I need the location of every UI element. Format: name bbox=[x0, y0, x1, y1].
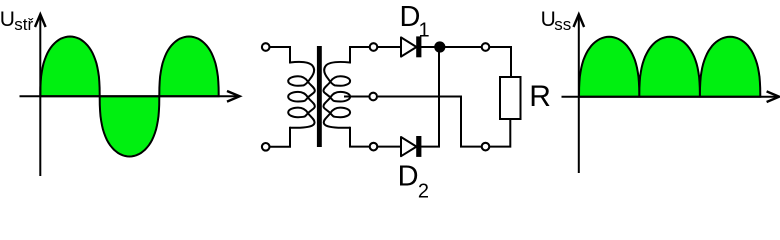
secondary top terminal bbox=[370, 43, 378, 51]
svg-text:1: 1 bbox=[419, 20, 430, 42]
svg-text:2: 2 bbox=[418, 180, 429, 202]
resistor R bbox=[500, 77, 521, 119]
wire D2 to junction bbox=[421, 47, 439, 147]
svg-text:D: D bbox=[398, 161, 419, 193]
wire bbox=[350, 47, 370, 64]
secondary winding L2 bbox=[323, 62, 350, 128]
transformer core bbox=[317, 46, 322, 147]
wire bbox=[270, 47, 290, 64]
wire bbox=[350, 127, 370, 147]
left graph sine wave (AC input) bbox=[40, 37, 218, 157]
diode D1 bbox=[401, 37, 417, 56]
wire from center tap down bbox=[378, 97, 482, 147]
primary winding L1 bbox=[288, 62, 315, 128]
svg-text:D: D bbox=[400, 1, 421, 33]
diode D2 bbox=[401, 137, 417, 156]
svg-text:U: U bbox=[0, 8, 15, 31]
output top terminal bbox=[482, 43, 490, 51]
wire bbox=[421, 46, 482, 48]
junction node bbox=[434, 41, 445, 52]
svg-text:stř: stř bbox=[14, 15, 33, 34]
svg-text:R: R bbox=[529, 80, 551, 113]
right graph rectified wave (DC output) bbox=[579, 37, 760, 97]
output bottom terminal bbox=[482, 143, 490, 151]
primary bottom terminal bbox=[262, 143, 270, 151]
svg-text:ss: ss bbox=[554, 15, 571, 34]
left y-axis bbox=[39, 17, 41, 176]
left x-axis bbox=[20, 95, 238, 97]
primary top terminal bbox=[262, 43, 270, 51]
wire bbox=[270, 127, 290, 147]
wire bbox=[490, 119, 511, 147]
center tap wire bbox=[344, 96, 369, 98]
secondary bottom terminal bbox=[370, 143, 378, 151]
right y-axis bbox=[578, 17, 580, 173]
wire bbox=[378, 46, 402, 48]
wire bbox=[490, 47, 512, 77]
center tap terminal bbox=[369, 93, 377, 101]
wire bbox=[378, 146, 402, 148]
right x-axis bbox=[562, 96, 777, 98]
